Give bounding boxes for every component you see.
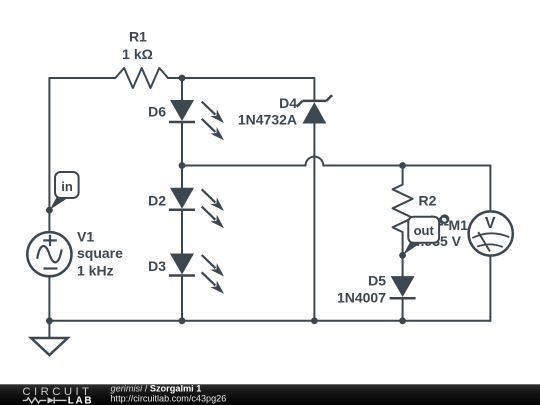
node junction dot D4 bottom: [311, 317, 318, 324]
wire left rail upper (node in to V1): [48, 78, 50, 232]
ground: [31, 321, 68, 355]
wire middle horizontal with hop over D4 column: [182, 157, 490, 166]
logo resistor-diode squiggle: [23, 397, 67, 403]
svg-text:out: out: [414, 223, 435, 238]
svg-text:1N4007: 1N4007: [337, 289, 386, 305]
flag node in: [50, 172, 79, 210]
svg-text:V: V: [485, 215, 496, 232]
zener diode D4: [297, 95, 332, 123]
svg-text:R2: R2: [419, 193, 437, 209]
resistor R1: [115, 68, 168, 88]
diode D5: [390, 276, 416, 298]
voltmeter V (M1 probe meter): [469, 211, 513, 255]
node junction dot D3 bottom: [179, 317, 186, 324]
wire left rail lower (V1 to ground rail): [48, 276, 50, 321]
svg-text:gerimisi / Szorgalmi 1: gerimisi / Szorgalmi 1: [111, 383, 202, 393]
node out junction dot: [399, 252, 406, 259]
svg-text:1 kHz: 1 kHz: [77, 263, 114, 279]
LED D3: [169, 252, 227, 297]
wire right rail to voltmeter: [489, 166, 491, 212]
LED D6: [169, 98, 227, 143]
svg-text:in: in: [61, 179, 73, 194]
wire D5 to bottom rail: [402, 298, 404, 321]
node A (in) junction dot: [46, 207, 53, 214]
voltage source V1: [27, 232, 71, 276]
wire D6 branch top: [181, 78, 183, 100]
wire D2 to D3: [181, 210, 183, 254]
resistor R2: [393, 185, 413, 233]
svg-text:1N4732A: 1N4732A: [238, 112, 297, 128]
LED D2: [169, 186, 227, 231]
node junction dot D6/middle wire: [179, 162, 186, 169]
node junction dot ground/V1: [46, 317, 53, 324]
svg-text:square: square: [77, 245, 123, 261]
svg-text:M1: M1: [449, 217, 469, 233]
svg-text:LAB: LAB: [68, 395, 93, 405]
svg-text:V1: V1: [77, 229, 94, 245]
wire D4 anode down to bottom rail: [313, 124, 315, 321]
wire D3 to bottom rail: [181, 276, 183, 321]
flag node out: [403, 217, 439, 255]
wire R1 right to D4 top corner: [168, 78, 314, 100]
node junction dot D5 bottom: [399, 317, 406, 324]
svg-text:D3: D3: [148, 258, 166, 274]
svg-text:1 kΩ: 1 kΩ: [122, 46, 153, 62]
node junction dot R1/D6 top: [179, 75, 186, 82]
wire D6 to D2: [181, 122, 183, 188]
wire node out to D5: [402, 255, 404, 276]
wire bottom ground rail: [49, 320, 490, 322]
svg-text:D2: D2: [148, 192, 166, 208]
svg-text:http://circuitlab.com/c43pg26: http://circuitlab.com/c43pg26: [111, 393, 227, 403]
wire voltmeter to bottom rail: [489, 256, 491, 321]
svg-text:R1: R1: [129, 28, 147, 44]
svg-text:D6: D6: [148, 104, 166, 120]
wire top-left from source to R1: [49, 77, 115, 79]
svg-text:D5: D5: [368, 273, 386, 289]
wire R2 top lead: [402, 166, 404, 185]
node junction dot R2 top: [399, 162, 406, 169]
wire R2 bottom lead to node out: [402, 232, 404, 255]
svg-text:D4: D4: [279, 95, 297, 111]
meter M1 probe ring: [441, 215, 448, 222]
